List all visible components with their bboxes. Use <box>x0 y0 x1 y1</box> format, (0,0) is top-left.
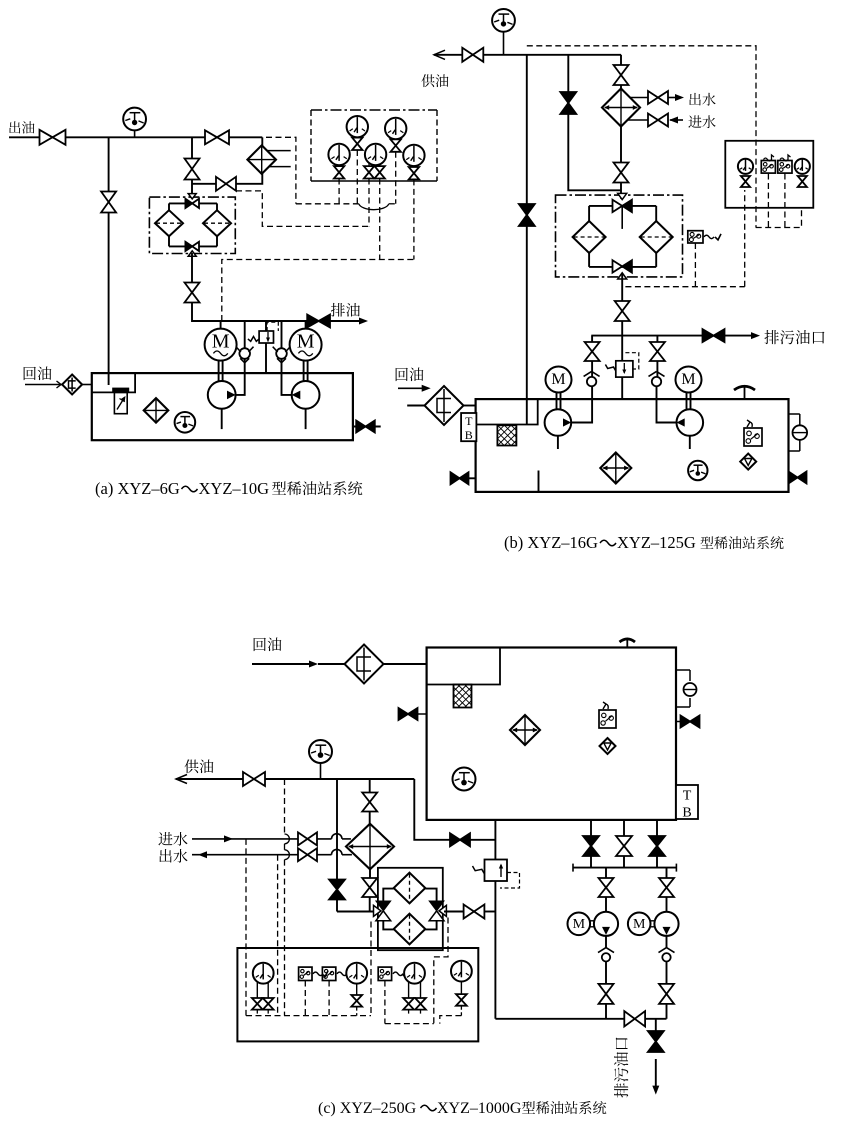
wire tank stub 3 <box>656 820 658 868</box>
return strainer SD-C <box>345 645 384 684</box>
tank cooler element <box>144 398 169 423</box>
tank thermometer B <box>688 461 707 480</box>
relief valve RV-A <box>248 322 278 343</box>
valve CV12 <box>616 836 632 856</box>
wire to manifold C1 <box>605 1004 607 1019</box>
instrument panel A border <box>311 110 437 181</box>
wire cooler water pipe 2 <box>269 166 291 168</box>
wire drop check2 <box>281 321 283 348</box>
wire filter B outlet <box>621 274 623 302</box>
signal <box>257 1010 268 1016</box>
svg-text:M: M <box>551 371 565 388</box>
tank thermometer C <box>453 768 476 791</box>
wire relief drop A <box>265 321 267 331</box>
label 供油 C <box>184 759 213 773</box>
signal s5 <box>434 918 448 1024</box>
svg-text:XYZ–1000G: XYZ–1000G <box>437 1100 522 1117</box>
caption (c) <box>318 1100 606 1117</box>
pressure switch PS-B3 <box>778 155 792 173</box>
svg-text:B: B <box>465 428 473 442</box>
coupling B1 <box>557 393 561 410</box>
pressure gauge PG-C4 <box>451 961 472 995</box>
label 排油 <box>331 303 360 317</box>
signal bus 2 <box>236 191 369 227</box>
breather B <box>734 386 755 399</box>
valve BV10 <box>585 342 600 361</box>
pressure gauge PG-C2 <box>346 963 367 996</box>
wire pump col BR <box>656 336 658 377</box>
wire cooler line x621 <box>620 55 622 199</box>
wire to manifold C2 <box>666 1004 668 1019</box>
signal line d5 <box>395 152 397 204</box>
wire drain arrow <box>330 318 368 325</box>
wire filter C outlet <box>444 911 464 913</box>
signal s3 <box>285 779 290 1016</box>
valve HV4 (line valve) <box>205 130 229 144</box>
signal <box>328 981 330 1016</box>
wire filter bypass C <box>337 779 376 912</box>
hatch filter C <box>454 685 472 708</box>
check valve CK-B1 <box>584 371 600 386</box>
three-way cock A-top <box>185 194 199 208</box>
signal <box>304 981 306 1016</box>
wire to main <box>484 911 495 913</box>
wire water-in C <box>192 834 351 843</box>
valve CV19 drain (closed) <box>648 1031 664 1052</box>
three-way cock B-top <box>613 193 632 229</box>
hatch filter B <box>497 425 516 445</box>
relief valve RV-B <box>605 353 638 377</box>
check valve CK1 <box>236 347 254 363</box>
signal s1 <box>245 839 247 1016</box>
gauge valve <box>741 176 750 187</box>
gauge valve <box>351 995 362 1007</box>
valve BV12 tank drain L (closed) <box>451 472 476 484</box>
svg-text:(a) XYZ–6G: (a) XYZ–6G <box>95 479 180 498</box>
wire outlet line A <box>9 136 262 138</box>
label 回油 (return) <box>24 366 52 380</box>
tank A shell <box>92 373 353 440</box>
wire cooler water pipe 1 <box>268 150 291 152</box>
valve CV3 supply <box>243 772 265 786</box>
pump P1 <box>208 381 236 409</box>
svg-text:M: M <box>297 331 315 353</box>
signal <box>356 1007 358 1016</box>
valve BV7 water-in <box>648 114 668 127</box>
pressure gauge PG1 <box>347 116 368 137</box>
wire cooler branch C <box>369 779 371 912</box>
wire check1 to pump1 <box>236 359 245 395</box>
svg-text:T: T <box>683 788 692 803</box>
wire manifold C lower <box>495 1018 666 1020</box>
valve CV14 <box>599 878 614 897</box>
level regulator <box>114 392 127 413</box>
gauge stub lines PG4 <box>369 164 380 167</box>
pressure switch PS-C2 <box>299 967 328 980</box>
gauge valve v4b <box>375 166 385 178</box>
wire water in <box>628 119 649 121</box>
filter box C <box>378 868 443 950</box>
pressure switch PS-C3 <box>322 967 352 980</box>
wire branch to tank <box>108 137 110 385</box>
float element B <box>740 454 756 470</box>
label 排污油口 <box>764 330 824 344</box>
wire strainer to tank <box>82 384 92 386</box>
motor M2 <box>290 329 322 361</box>
tank B shell <box>476 399 789 492</box>
coupling M2-P2 <box>304 361 308 381</box>
wire tank stub 2 <box>623 820 625 868</box>
pump PB2 <box>677 409 704 436</box>
wire check to valve C1 <box>605 962 607 985</box>
thermometer TG-B1 <box>492 9 515 55</box>
label 回油 B <box>396 367 424 381</box>
signal bus 3 <box>222 260 414 322</box>
terminal box TB-B <box>461 413 476 442</box>
svg-text:M: M <box>681 371 695 388</box>
valve CV9 water-out <box>298 848 317 861</box>
wire strainer to tank C <box>384 663 427 665</box>
signal s4 <box>370 922 372 1016</box>
svg-text:B: B <box>682 805 691 820</box>
motor M1 <box>205 329 237 361</box>
valve BV8 <box>615 301 630 321</box>
wire tank stub 1 <box>590 820 592 868</box>
valve HV1 (outlet gate valve) <box>40 130 66 145</box>
wire return inlet line <box>25 384 62 386</box>
label 回油 C <box>254 637 282 651</box>
wire to manifold B <box>621 321 623 336</box>
wire drop to motor2 <box>305 321 307 329</box>
valve CV15 <box>659 878 674 897</box>
wire water out <box>630 97 648 99</box>
wire strainer line B <box>407 405 425 407</box>
valve HV6 below filters <box>185 283 200 303</box>
caption (a) <box>95 479 362 498</box>
gauge valve <box>798 176 807 187</box>
valve HV3 on riser <box>185 159 200 180</box>
chamber weir bar <box>113 388 129 392</box>
tank A suction chamber <box>92 373 135 392</box>
wire check2 to pump2 <box>282 359 292 395</box>
pressure gauge PG-C1 <box>253 963 274 999</box>
float element C <box>600 738 616 754</box>
pump PC1 <box>594 912 618 936</box>
valve CV5 <box>362 793 377 812</box>
tank cooler B <box>600 453 631 484</box>
pressure gauge PG4 <box>365 144 386 165</box>
gauge valve v3 <box>334 166 344 178</box>
pressure switch PS-B1 <box>688 231 721 243</box>
signal gauge jog <box>440 1016 462 1024</box>
cooler/heat-exchanger HX-A <box>247 145 276 174</box>
tank C shell <box>427 648 676 820</box>
wire relief to tank <box>265 343 267 373</box>
label 进水 <box>688 115 715 128</box>
level gauge C <box>676 670 697 707</box>
filter FB1 <box>573 221 606 253</box>
valve CV18 <box>624 1011 645 1026</box>
valve BV6 water-out <box>648 91 668 104</box>
check valve CK-C2 <box>659 948 675 962</box>
wire water out arrow <box>668 94 684 101</box>
relief valve RV-C <box>473 860 520 889</box>
coupling C1 <box>590 921 594 927</box>
three-way cock C-right <box>429 901 446 921</box>
wire return arrow B <box>398 385 431 392</box>
fitting chevron <box>57 381 62 388</box>
label 排污油口 vertical <box>614 1038 628 1098</box>
valve BV2 (closed) <box>519 204 535 226</box>
pressure switch PS-B2 <box>761 155 775 173</box>
label 进水 <box>158 832 187 846</box>
signal <box>384 981 386 1024</box>
gauge valve v2 <box>391 139 401 151</box>
gauge valve v4a <box>364 166 374 178</box>
tank B baffle <box>538 471 540 492</box>
wire P2 suction <box>305 409 307 429</box>
tank cooler C <box>510 715 540 745</box>
valve CV16 <box>599 984 614 1004</box>
three-way cock C-left <box>374 901 391 921</box>
pressure switch PS-B4 <box>744 420 762 446</box>
wire return arrow C <box>252 661 344 668</box>
breather C <box>620 639 636 648</box>
valve CV2 tank drain R (closed) <box>676 716 700 728</box>
thermometer TG-C1 <box>309 740 332 779</box>
tank thermometer TG2 <box>175 412 196 433</box>
signal line d1 <box>338 179 340 204</box>
signal <box>409 1010 421 1016</box>
wire pump col C1 <box>605 868 607 912</box>
gauge valve <box>403 998 414 1010</box>
svg-text:M: M <box>573 917 586 932</box>
thermometer gauge TG1 <box>123 108 146 138</box>
wire filter loop B <box>589 206 656 267</box>
cooler HX-C <box>346 824 394 870</box>
signal line cooler box <box>266 137 296 204</box>
filter F1 (left) <box>155 210 183 236</box>
check valve CK2 <box>273 347 291 363</box>
wire manifold C upper <box>573 864 676 872</box>
three-way cock B-bottom <box>613 260 632 279</box>
valve HV8 tank drain (closed) <box>356 421 375 433</box>
wire tank outlet stub <box>353 426 381 428</box>
wire P1 suction <box>221 409 223 429</box>
valve BV11 <box>650 342 665 361</box>
wire water-out C <box>192 849 352 858</box>
pressure gauge PG5 <box>403 145 424 166</box>
wire bypass x568.3 <box>568 55 621 191</box>
wire supply line C <box>176 775 414 784</box>
filter FC2 <box>394 914 426 945</box>
svg-text:(c) XYZ–250G: (c) XYZ–250G <box>318 1100 417 1117</box>
valve CV4 (closed) <box>450 833 470 846</box>
signal jog B <box>756 174 802 228</box>
svg-text:M: M <box>212 331 230 353</box>
tank B chamber <box>476 399 538 424</box>
pump PC2 <box>654 912 678 936</box>
valve HV7 排油 (drain, closed) <box>307 315 330 328</box>
signal bus C upper <box>246 1015 371 1017</box>
valve CV8 water-in <box>298 832 317 845</box>
wire drop check1 <box>244 321 246 348</box>
pressure gauge PG-B1 <box>738 159 753 174</box>
valve CV10 <box>464 905 485 919</box>
wire drop to motor1 <box>220 321 222 329</box>
valve BV5 <box>614 163 629 183</box>
signal <box>460 1006 462 1016</box>
pump P2 <box>292 381 320 409</box>
valve BV1 supply <box>462 48 483 62</box>
valve HV5 (cooler bypass) <box>216 177 236 191</box>
instrument panel C <box>237 948 478 1041</box>
panel boundary B <box>527 46 756 228</box>
valve CV6 <box>362 878 377 897</box>
svg-text:(b) XYZ–16G: (b) XYZ–16G <box>504 533 598 552</box>
signal bus B <box>625 190 744 287</box>
wire blowdown arrow <box>725 332 761 339</box>
tank C chamber <box>427 648 500 685</box>
svg-text:XYZ–10G: XYZ–10G <box>199 479 270 498</box>
svg-text:M: M <box>633 917 646 932</box>
level gauge B <box>789 414 808 451</box>
wire check to valve C2 <box>666 962 668 985</box>
label 出油 (oil out) <box>9 121 34 133</box>
motor MB1 <box>546 367 572 393</box>
wire supply line B <box>434 50 621 59</box>
wire pump header A <box>192 303 307 322</box>
pressure switch PS-C1 <box>599 702 616 728</box>
gauge valve <box>252 998 263 1010</box>
wire below pump C1 <box>605 936 607 949</box>
valve CV7 (closed) <box>329 880 345 900</box>
gauge valve v5 <box>409 167 419 179</box>
motor MC1 <box>568 913 591 936</box>
three-way cock A-bottom <box>185 242 199 256</box>
wire filter loop A <box>169 203 217 246</box>
terminal box TB-C <box>676 785 698 820</box>
wire filter outlet <box>191 253 193 283</box>
valve BV9 blowdown (closed) <box>703 329 725 342</box>
pressure gauge PG2 <box>385 118 406 139</box>
filter box B border <box>556 195 683 277</box>
check valve CK-C1 <box>598 948 614 962</box>
signal bus 1 <box>296 204 396 210</box>
svg-text:XYZ–125G: XYZ–125G <box>617 533 696 552</box>
label 出水 <box>689 93 715 106</box>
gauge valve <box>415 998 426 1010</box>
signal line d2 <box>356 150 358 204</box>
wire PB2 suction <box>689 436 691 449</box>
motor MB2 <box>676 367 702 393</box>
wire tank feed x526.8 <box>526 55 528 425</box>
coupling C2 <box>651 921 655 927</box>
signal s2 <box>277 855 279 1016</box>
valve BV3 (closed) <box>560 92 576 114</box>
wire to pump2 B <box>657 386 677 422</box>
gauge valve <box>263 998 274 1010</box>
valve BV4 <box>614 65 629 85</box>
wire drain arrow C <box>652 1059 659 1095</box>
wire manifold B <box>591 335 702 337</box>
pressure gauge PG3 <box>328 144 349 165</box>
pressure switch PS-C4 <box>378 967 408 980</box>
cooler HX-B <box>602 89 640 127</box>
wire pump col BL <box>591 336 593 377</box>
filter F2 (right) <box>203 210 231 236</box>
gauge valve <box>456 994 467 1006</box>
signal line d4 <box>379 179 381 260</box>
valve CV13 (closed) <box>649 836 665 856</box>
motor MC2 <box>628 913 651 936</box>
valve CV1 tank drain L (closed) <box>399 708 427 720</box>
return strainer SD-B <box>425 386 464 425</box>
wire cooler bottom elbow <box>236 173 262 184</box>
instrument panel B <box>725 141 813 208</box>
wire relief line B <box>621 336 623 400</box>
check valve CK-B2 <box>649 371 665 386</box>
return strainer SD-A <box>62 375 82 395</box>
wire drain drop C <box>655 1019 657 1031</box>
wire bypass to riser <box>192 183 216 185</box>
label 供油 <box>421 74 448 87</box>
coupling B2 <box>687 393 691 410</box>
svg-text:T: T <box>465 414 473 428</box>
wire strainer to tank B <box>463 405 475 407</box>
filter FB2 <box>640 221 673 253</box>
gauge valve v1 <box>352 138 362 150</box>
wire water in arrow <box>669 117 683 124</box>
valve BV13 tank drain R (closed) <box>789 472 807 484</box>
signal line d6 <box>413 179 415 259</box>
coupling M1-P1 <box>219 361 223 381</box>
valve CV17 <box>659 984 674 1004</box>
filter FC1 <box>394 873 426 904</box>
wire to pump1 B <box>571 386 592 422</box>
signal line d3 <box>368 179 370 227</box>
filter changeover box A border <box>149 197 235 253</box>
pump PB1 <box>545 409 572 436</box>
wire discharge main C <box>494 820 496 1019</box>
wire below pump C2 <box>666 936 668 949</box>
signal from PS-B1 <box>694 243 696 287</box>
wire pump col C2 <box>666 868 668 912</box>
caption (b) <box>504 533 784 552</box>
label 出水 <box>159 849 187 863</box>
pressure gauge PG-C3 <box>404 963 425 999</box>
wire cooler elbow top <box>261 137 263 146</box>
signal bus C lower <box>385 1023 434 1025</box>
wire main riser x192 <box>191 137 193 197</box>
wire filter loop C <box>383 889 436 930</box>
valve CV11 (closed) <box>583 836 599 856</box>
wire riser C <box>414 779 495 840</box>
valve HV2 on tank branch <box>101 192 116 213</box>
wire PB1 suction <box>557 436 559 449</box>
pressure gauge PG-B2 <box>795 159 810 174</box>
